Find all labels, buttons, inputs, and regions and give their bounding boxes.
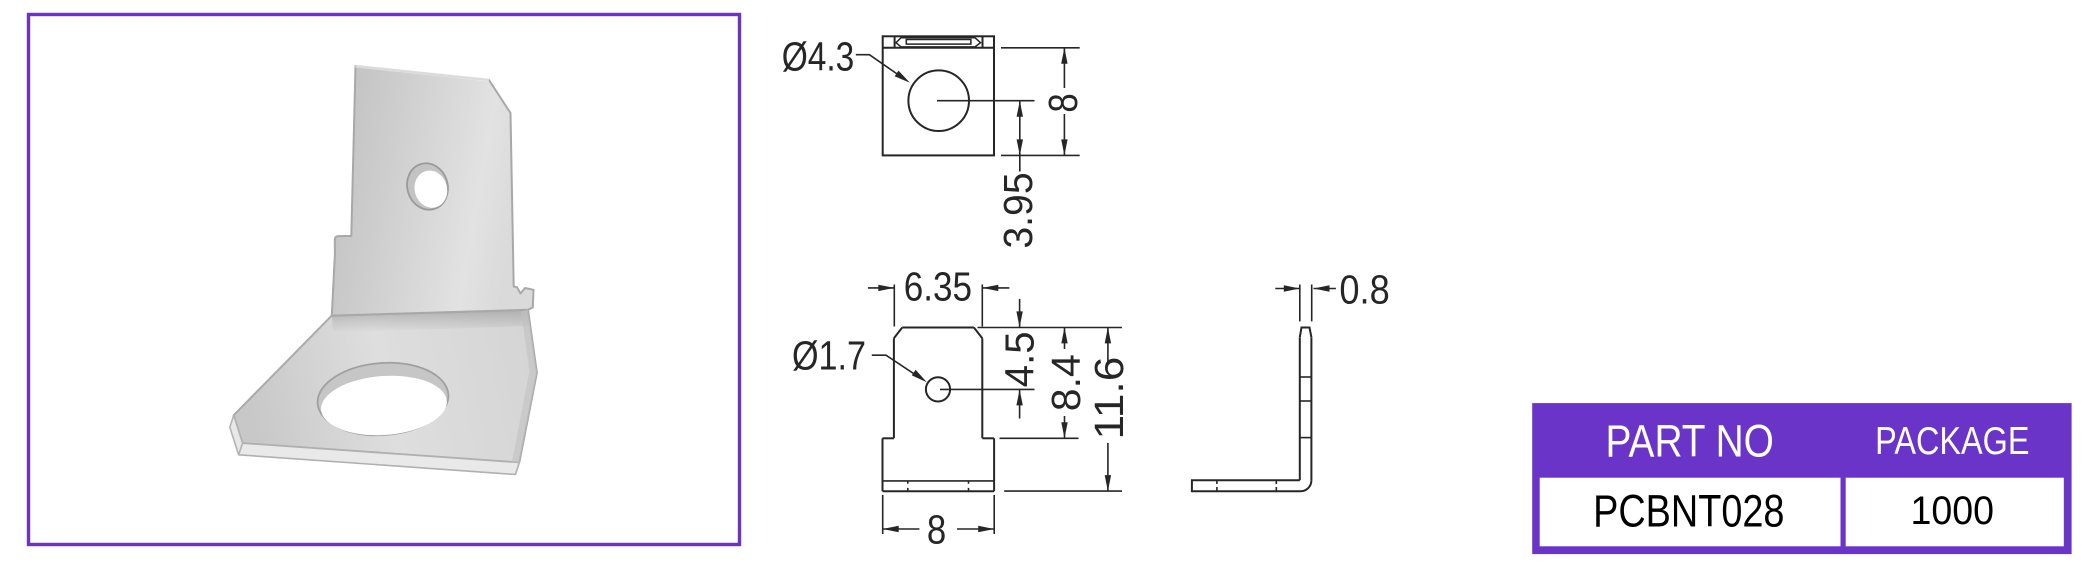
blade small hole [402, 158, 454, 214]
dim 8 bottom right extension [993, 495, 995, 534]
product photo: PCB terminal bracket [230, 66, 537, 475]
svg-text:8.4: 8.4 [1043, 354, 1089, 411]
top view tab lens outline [896, 38, 981, 47]
side view leg tick 1 [1216, 480, 1218, 491]
side view tick 1 [1300, 376, 1312, 378]
dim 11.6 bottom extension [1004, 490, 1122, 492]
table cell part no [1540, 478, 1841, 547]
dim 6.35 left segment [868, 287, 894, 289]
bend line [332, 310, 528, 316]
top view square outline [883, 36, 994, 155]
front view tab right side [981, 338, 983, 438]
front view tab right chamfer [974, 328, 982, 339]
dim 8.4 arrow up [1061, 327, 1067, 343]
side view leg tick 2 [1275, 480, 1277, 491]
dim 8 top arrow down [1061, 139, 1067, 155]
dim 4.5 arrow down [1016, 311, 1022, 327]
svg-text:1000: 1000 [1911, 489, 1994, 533]
svg-text:11.6: 11.6 [1086, 357, 1132, 440]
dim 6.35 left extension [893, 285, 895, 327]
front view base bottom [883, 490, 995, 492]
base left edge thickness [230, 415, 243, 455]
top view strip left vertical [894, 36, 896, 48]
top view hole centerline [937, 100, 1035, 102]
side view outer bend and leg [1192, 480, 1312, 491]
dim 8.4 shaft [1064, 327, 1066, 438]
top view strip line [883, 47, 994, 49]
leader line for dia 4.3 [856, 55, 904, 79]
top view hole circle [908, 70, 969, 131]
dim 3.95 arrow up [1017, 101, 1023, 117]
front view base inner line [883, 480, 995, 482]
front view step right [982, 437, 994, 439]
front view tab left chamfer [894, 328, 902, 339]
dim 4.5 upper shaft [1019, 299, 1021, 328]
side view tick 2 [1300, 400, 1312, 402]
dim 8 bottom right segment [957, 528, 994, 530]
front view hidden tick right [968, 481, 970, 491]
dim 3.95 arrow down [1017, 139, 1023, 155]
side view blade left line [1299, 337, 1301, 480]
dim 8 bottom left segment [883, 528, 920, 530]
dim 6.35 right segment [982, 287, 1009, 289]
dim 3.95 shaft [1019, 101, 1021, 172]
front view tab top edge [902, 327, 974, 329]
bracket vertical tab (blade) [332, 66, 534, 316]
dim 0.8 arrow right-pointing [1284, 285, 1300, 291]
side view blade tip [1300, 328, 1312, 338]
dim 6.35 arrow left-pointing [982, 285, 998, 291]
dim 11.6 arrow up [1105, 327, 1111, 343]
leader line for dia 1.7 [872, 355, 922, 379]
dim 11.6 arrow down [1105, 475, 1111, 491]
dim 8 bottom arrow right [978, 526, 994, 532]
bracket base plate top face [234, 310, 537, 463]
blade top edge highlight [356, 66, 490, 80]
photo frame purple border box [29, 15, 740, 545]
dim 4.5 lower shaft [1019, 389, 1021, 418]
leader arrowhead dia 4.3 [895, 71, 910, 83]
dim 8 top arrow up [1061, 48, 1067, 64]
dim 8 bottom left extension [882, 495, 884, 534]
dim 8 top extension line lower [1001, 154, 1080, 156]
svg-text:PACKAGE: PACKAGE [1875, 419, 2029, 462]
dim 8.4 arrow down [1061, 422, 1067, 438]
svg-text:8: 8 [927, 508, 946, 553]
side view tick 3 [1300, 437, 1312, 439]
dim 6.35 right extension [981, 285, 983, 327]
front view base left side [882, 438, 884, 491]
front view step left [883, 437, 894, 439]
dim 11.6 shaft [1107, 327, 1109, 491]
dim 0.8 left segment [1275, 288, 1300, 290]
svg-text:4.5: 4.5 [996, 331, 1042, 387]
svg-text:PART NO: PART NO [1606, 416, 1774, 467]
dim 0.8 right extension [1311, 285, 1313, 322]
dim 0.8 right segment [1314, 288, 1336, 290]
dim 8 top extension line upper [1001, 47, 1080, 49]
table cell package [1846, 478, 2064, 547]
svg-text:Ø4.3: Ø4.3 [782, 33, 855, 79]
table purple background [1532, 403, 2071, 554]
leader arrowhead dia 1.7 [912, 370, 927, 383]
base right rim shading [512, 310, 537, 463]
svg-text:6.35: 6.35 [904, 264, 972, 310]
tab top projection line [978, 327, 1123, 329]
dim 4.5 arrow up [1016, 389, 1022, 405]
side view blade right line [1310, 337, 1312, 480]
front view tab left side [893, 338, 895, 438]
dim 8 bottom arrow left [883, 526, 899, 532]
svg-text:0.8: 0.8 [1339, 268, 1389, 314]
svg-text:PCBNT028: PCBNT028 [1593, 485, 1784, 536]
svg-text:Ø1.7: Ø1.7 [792, 333, 866, 379]
bend shadow on base [332, 310, 529, 333]
svg-text:8: 8 [1042, 93, 1087, 112]
front view hole [926, 377, 950, 401]
dim 0.8 arrow left-pointing [1314, 285, 1330, 291]
base large hole [315, 359, 451, 440]
dim 0.8 left extension [1299, 285, 1301, 322]
top view tab inner rect [906, 40, 971, 45]
svg-text:3.95: 3.95 [996, 172, 1041, 248]
dim 8 top shaft [1063, 48, 1065, 156]
top view strip right vertical [982, 36, 984, 48]
dim 6.35 arrow right-pointing [878, 285, 894, 291]
front view hidden tick left [907, 481, 909, 491]
dim 8.4 bottom extension [1000, 437, 1079, 439]
front view base right side [993, 438, 995, 491]
front view hole centerline [940, 388, 1035, 390]
base front edge thickness [239, 443, 520, 474]
